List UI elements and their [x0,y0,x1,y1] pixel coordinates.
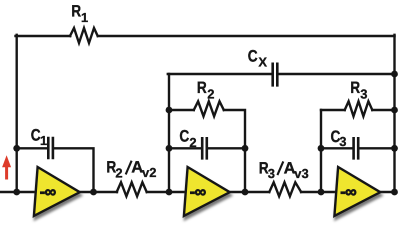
wire: C3 left segment [321,147,352,149]
wire: R3/Av3 to U3 input [301,191,336,193]
wire: R2 right segment down to U2 output [224,110,245,192]
wire: left vertical input net [16,35,18,192]
label -inf U3 [340,183,356,201]
op-amp U2 [184,167,230,216]
svg-text:v3: v3 [294,166,308,181]
svg-text:-∞: -∞ [190,183,206,201]
wire: input lead from left edge [0,191,36,193]
capacitor Cx [273,64,278,86]
label -inf U1 [40,183,56,201]
op-amp U3 [334,167,380,216]
svg-text:1: 1 [40,133,47,148]
node: R2 tap on stage-2 input net [166,107,173,114]
node: C3 tap on stage-3 input net [318,145,325,152]
wire: C1 left segment [17,147,47,149]
svg-text:3: 3 [339,134,346,149]
wire: R2 left segment [169,109,194,111]
svg-text:-∞: -∞ [40,183,56,201]
resistor R2/Av2 [117,182,147,196]
wire: U2 output to R3/Av3 [230,191,269,193]
resistor R3 [345,101,373,116]
wire: C3 right segment [360,147,395,149]
wire: C2 right segment [208,147,245,149]
resistor R1 [70,28,98,43]
label C2 [179,127,196,150]
svg-text:C: C [248,47,258,65]
wire: C2 left segment [169,147,201,149]
wire: R2/Av2 to U2 input [147,191,186,193]
wire: stage-2 feedback left vertical (node B) [168,74,170,192]
wire: R3 left segment [321,109,345,111]
label C3 [331,128,347,149]
capacitor C2 [202,138,207,158]
wire: top feedback, input node to R1 [16,35,71,37]
svg-text:v2: v2 [142,165,156,180]
node: C1 tap on input net [13,145,20,152]
svg-text:2: 2 [189,135,196,150]
wire: right vertical output net [393,35,395,192]
label R1 [71,2,88,25]
svg-text:C: C [179,127,189,145]
svg-text:R: R [350,79,360,97]
wire: Cx left segment [168,73,271,75]
wire: top feedback, R1 to output net [98,35,395,37]
wire: Cx right segment [279,73,395,75]
node: C3 tap on output net [391,145,398,152]
node: U3 input junction [318,189,325,196]
svg-text:1: 1 [81,10,88,25]
op-amp U1 [34,167,80,216]
resistor R3/Av3 [269,182,301,196]
label -inf U2 [190,183,206,201]
node: Cx tap on output net [391,71,398,78]
label R3 [350,79,367,101]
wire: C1 right segment down to U1 output [54,148,93,192]
label R2/Av2 [106,159,156,181]
wire: U3 output to output node [380,191,394,193]
capacitor C1 [48,138,53,158]
wire: stage-3 feedback left vertical (node C) [320,110,322,192]
label C1 [31,126,47,148]
node: C2 tap on U2 output net [242,145,249,152]
node: U1 input junction [13,189,20,196]
node: U2 input junction [166,189,173,196]
node: C2 tap on stage-2 input net [166,145,173,152]
label R3/Av3 [259,159,309,181]
node: U3 output junction [391,189,398,196]
svg-text:3: 3 [268,166,275,181]
resistor R2 [194,101,224,116]
node: U1 output junction [90,189,97,196]
svg-text:2: 2 [115,165,122,180]
node: U2 output junction [242,189,249,196]
wire: U1 output to R2/Av2 [80,191,117,193]
svg-text:-∞: -∞ [340,183,356,201]
svg-text:R: R [197,79,207,97]
capacitor C3 [354,138,359,158]
svg-text:3: 3 [360,86,367,101]
wire: R3 right segment [372,109,394,111]
node: R3 tap on output net [391,107,398,114]
svg-text:2: 2 [207,86,214,101]
svg-text:X: X [258,55,267,70]
label R2 [197,79,215,101]
input current arrow (red) [2,155,11,179]
svg-text:R: R [71,2,81,20]
label Cx [248,47,268,69]
